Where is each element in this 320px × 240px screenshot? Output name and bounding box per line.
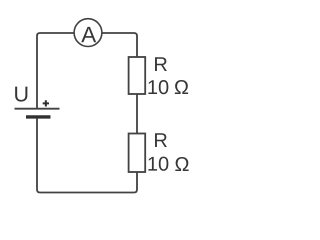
- resistor R2: [129, 134, 146, 173]
- label R2 designator R: [155, 133, 167, 147]
- ammeter A1: [74, 19, 102, 47]
- battery U: long thin positive plate: [15, 108, 60, 110]
- resistor R1: [129, 57, 146, 94]
- wire: ammeter to resistor R1 (top-right corner, right vertical): [100, 33, 137, 58]
- wire: R2 down, bottom return, up to battery - terminal: [37, 117, 137, 193]
- label R1 value 10 Ω: [148, 80, 168, 94]
- label R2 value 10 Ω: [148, 157, 168, 171]
- wire: battery + terminal up and across to ammeter: [37, 33, 76, 109]
- battery polarity +: [43, 100, 49, 106]
- label U source voltage: [15, 87, 27, 102]
- wire: node between R1 and R2: [136, 94, 138, 134]
- battery U: short thick negative plate: [26, 115, 51, 118]
- label R1 designator R: [155, 57, 167, 71]
